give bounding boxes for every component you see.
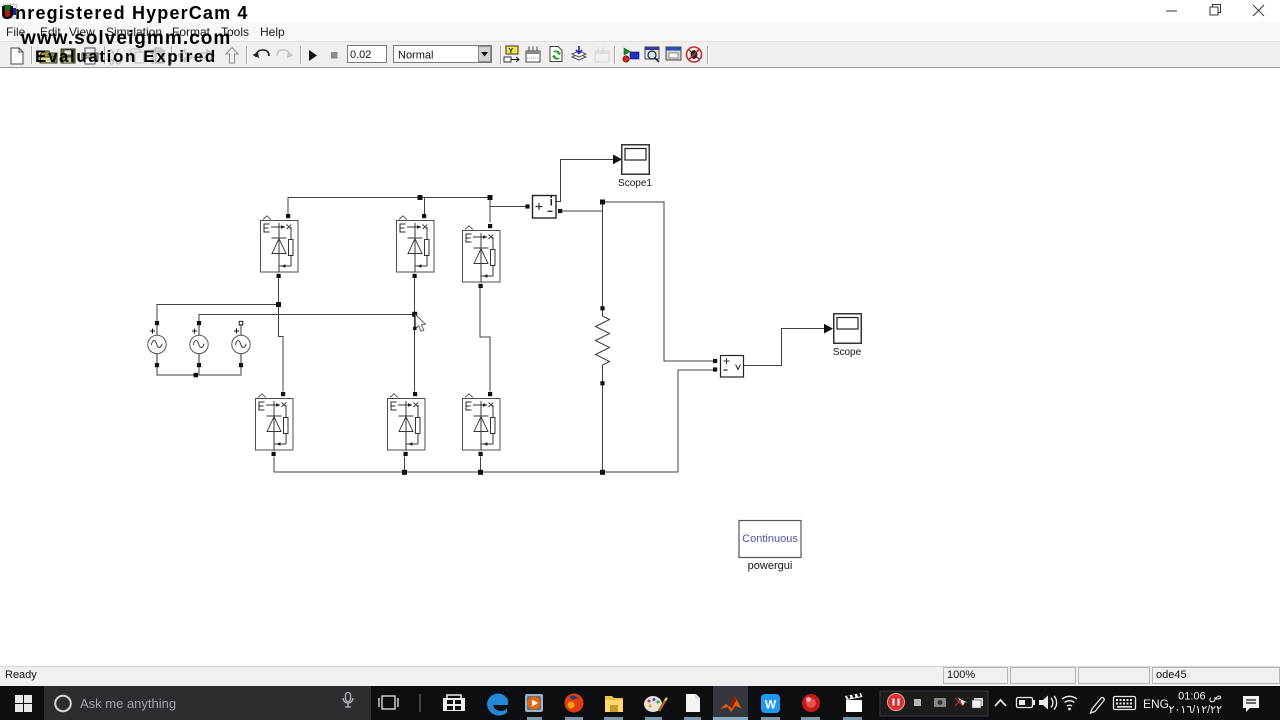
svg-text:Scope1: Scope1	[618, 178, 652, 189]
svg-text:0.02: 0.02	[350, 49, 371, 61]
svg-text:Y: Y	[509, 48, 514, 55]
svg-text:Continuous: Continuous	[742, 533, 798, 545]
svg-text:ENG: ENG	[1143, 697, 1169, 711]
svg-text:Scope: Scope	[833, 347, 862, 358]
svg-text:powergui: powergui	[748, 560, 793, 572]
svg-text:٢٠١٦/١٢/٢٢: ٢٠١٦/١٢/٢٢	[1169, 704, 1222, 716]
svg-text:Normal: Normal	[398, 50, 433, 62]
svg-text:01:06 ص: 01:06 ص	[1178, 691, 1222, 703]
svg-text:Ask me anything: Ask me anything	[80, 696, 176, 711]
svg-text:W: W	[765, 698, 777, 712]
